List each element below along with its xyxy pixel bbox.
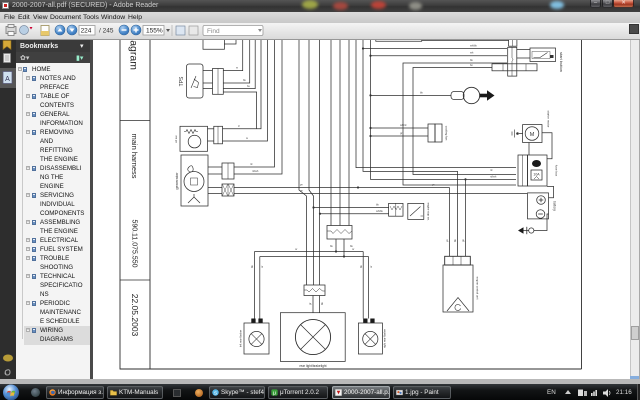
connector J5 (small) bbox=[509, 38, 517, 47]
wire loop A bbox=[403, 63, 516, 185]
wire gen AC1 into CDI bbox=[449, 188, 451, 257]
svg-text:left rear flasher: left rear flasher bbox=[239, 330, 243, 347]
right rear flasher L3 bbox=[358, 319, 382, 355]
svg-text:bk: bk bbox=[330, 244, 333, 248]
svg-text:rd: rd bbox=[490, 168, 493, 172]
label: 22.05.2003 bbox=[130, 294, 140, 337]
label cooling fan bbox=[445, 126, 449, 141]
wire flasher feed left/right lower bbox=[260, 255, 369, 257]
svg-text:engine control unit: engine control unit bbox=[476, 277, 480, 300]
wire TPS pin1 bbox=[223, 38, 242, 71]
connector box X1 (top, cut off) bbox=[203, 38, 224, 49]
engine stop switch S2 bbox=[408, 203, 424, 219]
svg-text:main harness: main harness bbox=[130, 133, 139, 178]
wire bus line 5 bbox=[339, 38, 341, 226]
svg-text:TPS: TPS bbox=[179, 76, 185, 86]
svg-text:A: A bbox=[5, 76, 10, 83]
svg-text:μ: μ bbox=[273, 390, 276, 396]
svg-text:224: 224 bbox=[81, 28, 92, 35]
label generator bbox=[174, 172, 179, 190]
svg-text:M: M bbox=[530, 132, 535, 138]
battery BAT1 bbox=[528, 193, 549, 219]
connector J6 (start button bar) bbox=[508, 47, 517, 76]
rear light/brakelight L1 bbox=[280, 313, 345, 362]
wire bus line 3 bbox=[319, 38, 321, 285]
svg-text:battery: battery bbox=[553, 201, 557, 211]
label left rear flasher bbox=[239, 330, 243, 347]
svg-text:ye: ye bbox=[446, 239, 449, 242]
svg-text:w: w bbox=[236, 67, 238, 70]
wire TPS pin4 jog bbox=[223, 92, 256, 129]
svg-text:rear light/brakelight: rear light/brakelight bbox=[299, 364, 326, 368]
wire bus line 8 to CDI bbox=[363, 38, 458, 256]
svg-text:bk: bk bbox=[250, 265, 254, 268]
wire X2 to connector bbox=[422, 40, 509, 42]
svg-text:fuse box: fuse box bbox=[555, 165, 559, 177]
svg-text:22.05.2003: 22.05.2003 bbox=[130, 294, 140, 337]
label start button bbox=[559, 52, 564, 72]
svg-text:diagram: diagram bbox=[128, 40, 140, 70]
wire to stop switch 1 bbox=[312, 206, 388, 208]
label CDI bbox=[476, 277, 480, 300]
title block frame bbox=[120, 38, 150, 369]
svg-text:rd/wh: rd/wh bbox=[252, 169, 259, 173]
svg-text:bu: bu bbox=[247, 84, 250, 88]
connector J7 (horizontal bar) bbox=[492, 64, 537, 71]
svg-text:bk: bk bbox=[420, 90, 423, 94]
svg-text:right rear flasher: right rear flasher bbox=[383, 329, 387, 348]
wire to cooling fan 2 bbox=[371, 135, 429, 137]
wires J10 to rear light bbox=[313, 296, 320, 313]
cooling fan M2 bbox=[428, 124, 442, 142]
svg-text:bk: bk bbox=[359, 265, 363, 268]
ignition coil / spark plug wire bbox=[371, 94, 452, 96]
svg-text:590.11.075.550: 590.11.075.550 bbox=[131, 219, 138, 267]
starter relay K1 bbox=[518, 155, 547, 186]
svg-text:g: g bbox=[238, 125, 240, 128]
label oil switch bbox=[174, 135, 178, 143]
schematic border bbox=[120, 38, 582, 369]
connector J2 (oil switch) bbox=[214, 126, 223, 144]
label right rear flasher bbox=[383, 329, 387, 348]
wire to cooling fan 1 bbox=[371, 127, 429, 129]
generator stubs bbox=[208, 167, 222, 194]
svg-text:ye: ye bbox=[300, 190, 303, 193]
wire start circuit 2 / branch bus bbox=[369, 38, 516, 179]
label stop switch bbox=[427, 203, 431, 221]
wire X1 to bus bbox=[224, 38, 236, 44]
wire bus line 4 bbox=[330, 38, 332, 226]
spark plug P1 bbox=[451, 87, 495, 103]
svg-text:starter motor: starter motor bbox=[547, 110, 551, 127]
ground symbol bbox=[518, 214, 549, 234]
svg-text:oil sw.: oil sw. bbox=[174, 135, 178, 143]
wire drop left flasher bbox=[255, 252, 260, 319]
wire bus line 2 bbox=[309, 38, 314, 285]
wire relay to battery bbox=[547, 186, 554, 197]
connector block J9 bbox=[327, 226, 352, 240]
svg-text:wh: wh bbox=[470, 51, 474, 55]
junction dot bbox=[357, 186, 359, 188]
svg-text:wh/bk: wh/bk bbox=[376, 209, 383, 213]
wire loop B bbox=[413, 68, 516, 175]
wire flasher feed left/right upper bbox=[255, 250, 364, 252]
svg-text:ye: ye bbox=[300, 184, 303, 187]
label: main harness bbox=[130, 133, 139, 178]
svg-text:wh/rd: wh/rd bbox=[400, 123, 407, 127]
wire to stop switch 2 bbox=[319, 213, 389, 215]
rotated wire labels bbox=[250, 239, 465, 305]
TPS sensor bbox=[187, 64, 204, 98]
svg-text:gr: gr bbox=[308, 303, 312, 305]
wire drop right flasher bbox=[363, 252, 368, 319]
svg-text:bk: bk bbox=[453, 239, 457, 242]
wire bus line 7 to relay bbox=[356, 38, 516, 168]
wire gen AC2 to relay bbox=[234, 193, 527, 195]
component box X2 (cut off) bbox=[376, 38, 422, 41]
CDI connector J11 bbox=[445, 256, 471, 265]
svg-text:engine stop sw.: engine stop sw. bbox=[427, 203, 431, 221]
svg-text:/ 245: / 245 bbox=[99, 28, 114, 35]
label main relay bbox=[555, 165, 559, 177]
wire motor to relay bbox=[529, 133, 552, 159]
svg-text:10A: 10A bbox=[533, 173, 540, 177]
starter motor M1 bbox=[512, 125, 542, 143]
oil pressure switch B2 bbox=[180, 126, 208, 151]
connector J4 (generator AC) bbox=[222, 184, 234, 196]
svg-text:cooling fan: cooling fan bbox=[445, 126, 449, 141]
connector J1 (TPS) bbox=[213, 69, 224, 95]
label starter motor bbox=[547, 110, 551, 127]
connector block J10 bbox=[304, 285, 325, 296]
svg-text:start button: start button bbox=[559, 52, 564, 72]
wire oil pin2 bbox=[223, 38, 268, 141]
connector J8 (stop switch) bbox=[389, 203, 403, 216]
svg-text:or: or bbox=[352, 247, 354, 251]
CDI unit U1 bbox=[443, 265, 473, 312]
svg-text:rd/wh: rd/wh bbox=[490, 174, 497, 178]
wire TPS pin2 bbox=[223, 38, 249, 83]
wire oil pin1 bbox=[223, 38, 262, 129]
label battery bbox=[553, 201, 557, 211]
svg-text:generator: generator bbox=[174, 172, 179, 190]
svg-text:Find: Find bbox=[207, 28, 220, 35]
svg-text:w: w bbox=[246, 137, 248, 140]
svg-text:wh/bk: wh/bk bbox=[470, 44, 477, 48]
left rear flasher L2 bbox=[244, 319, 269, 355]
svg-text:gn: gn bbox=[462, 239, 465, 242]
wires below J9 bbox=[336, 239, 344, 257]
svg-text:155%: 155% bbox=[146, 28, 163, 35]
label: 590.11.075.550 bbox=[131, 219, 138, 267]
TPS stub wires bbox=[203, 71, 213, 89]
connector J3 (generator DC) bbox=[222, 163, 234, 179]
label rear light/brakelight bbox=[299, 364, 326, 368]
wire branch to CDI pin3 bbox=[464, 178, 466, 256]
svg-text:bk: bk bbox=[470, 58, 473, 62]
svg-text:rd: rd bbox=[250, 162, 253, 166]
wire gen AC1 to CDI bbox=[234, 187, 450, 189]
svg-text:bk: bk bbox=[376, 203, 379, 207]
svg-text:bk: bk bbox=[243, 78, 246, 82]
svg-text:or: or bbox=[260, 266, 264, 268]
svg-text:bn: bn bbox=[470, 63, 473, 67]
start button S1 bbox=[517, 48, 556, 62]
wire bus line 6 bbox=[348, 38, 350, 226]
oil switch stubs bbox=[208, 129, 214, 141]
svg-text:or: or bbox=[295, 247, 297, 251]
svg-text:or: or bbox=[369, 266, 373, 268]
label: diagram bbox=[128, 32, 140, 70]
wire gen pin1 bbox=[234, 38, 275, 167]
wire start circuit 1 bbox=[362, 47, 507, 49]
wire colour labels bbox=[236, 44, 497, 252]
wire gen pin2 bbox=[234, 38, 282, 174]
generator G1 bbox=[181, 155, 208, 206]
wire bus line 1 bbox=[299, 38, 307, 285]
wire TPS pin3 bbox=[223, 38, 255, 89]
label TPS bbox=[179, 76, 185, 86]
svg-text:bk: bk bbox=[320, 302, 324, 305]
